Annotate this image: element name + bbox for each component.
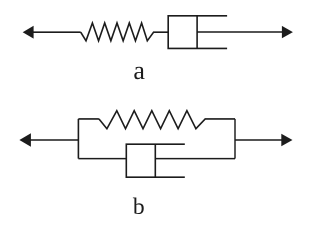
wire: frame to right arrow (b) (235, 139, 282, 141)
spring (a) (81, 23, 169, 41)
wire: piston rod to right vertical bar (b) (155, 158, 235, 160)
spring (b) (99, 111, 235, 129)
wire: left arrow shaft to frame (b) (31, 139, 79, 141)
node: left vertical bar of parallel frame (b) (77, 119, 79, 159)
left arrowhead (a) (23, 26, 34, 39)
right arrowhead (a) (282, 26, 293, 38)
svg-text:b: b (133, 194, 145, 220)
wire: piston rod to right arrow (a) (197, 31, 282, 33)
wire: bottom branch left segment (b) (78, 158, 126, 160)
svg-text:a: a (133, 56, 145, 85)
dashpot cylinder (a): left wall, top wall, bottom wall (168, 16, 227, 49)
left arrowhead (b) (19, 133, 31, 147)
wire: left arrow shaft to spring (a) (33, 31, 80, 33)
dashpot cylinder (b): top wall, left wall, bottom wall (126, 144, 185, 177)
node: right vertical bar of parallel frame (b) (234, 119, 236, 159)
dashpot piston (b) (154, 144, 156, 177)
wire: top branch left segment (b) (78, 118, 99, 120)
right arrowhead (b) (281, 134, 292, 146)
dashpot piston (a) (196, 16, 198, 49)
